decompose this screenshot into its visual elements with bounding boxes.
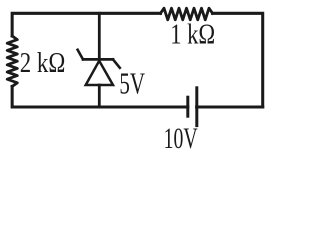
wire top-right segment xyxy=(213,13,263,107)
wire top-left segment xyxy=(12,13,160,36)
zener diode D1 anode triangle xyxy=(86,61,113,85)
svg-text:10V: 10V xyxy=(164,123,198,155)
svg-text:2 kΩ: 2 kΩ xyxy=(20,48,66,79)
svg-text:5V: 5V xyxy=(119,66,145,100)
wire middle vertical upper (node to zener cathode) xyxy=(98,13,101,59)
zener diode D1 cathode bar xyxy=(83,58,113,61)
zener diode D1 right bent tip xyxy=(113,59,120,67)
zener diode D1 left bent tip xyxy=(78,50,83,60)
wire bottom-right segment xyxy=(197,105,263,108)
wire middle vertical lower (zener anode to bottom wire) xyxy=(98,85,101,107)
svg-text:1 kΩ: 1 kΩ xyxy=(170,20,215,51)
resistor R1 1 kOhm (top zigzag) xyxy=(161,8,213,20)
battery V1 long plate xyxy=(195,88,198,126)
resistor R2 2 kOhm (left zigzag) xyxy=(7,36,17,86)
battery V1 short plate xyxy=(186,97,189,116)
wire bottom segment battery to left xyxy=(12,86,188,107)
